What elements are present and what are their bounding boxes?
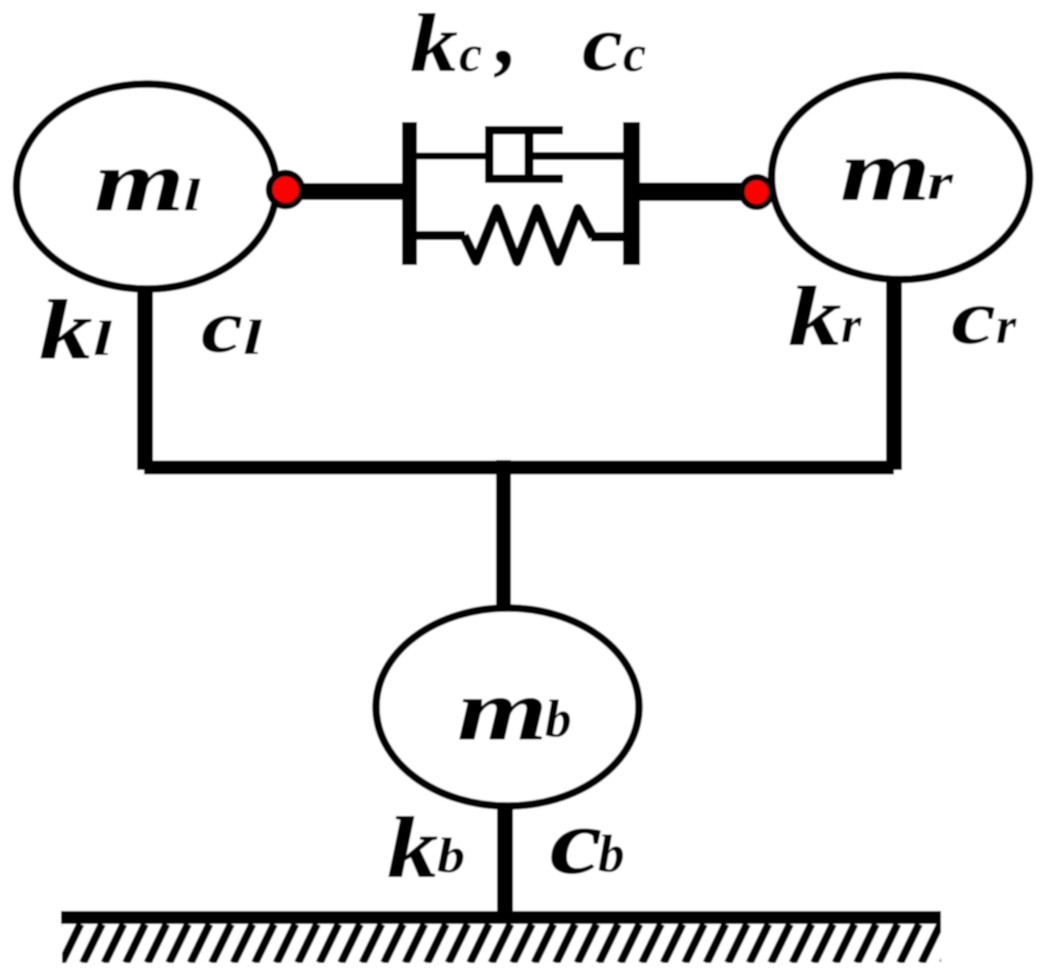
svg-text:c: c bbox=[550, 790, 603, 894]
svg-text:c: c bbox=[459, 26, 482, 83]
svg-text:c: c bbox=[582, 1, 623, 88]
svg-text:m: m bbox=[457, 663, 548, 760]
svg-text:c: c bbox=[951, 273, 996, 360]
svg-text:r: r bbox=[996, 298, 1017, 355]
svg-text:,: , bbox=[494, 0, 519, 84]
svg-text:m: m bbox=[94, 134, 185, 231]
svg-text:b: b bbox=[437, 827, 465, 883]
svg-text:m: m bbox=[840, 123, 931, 220]
svg-text:r: r bbox=[927, 154, 954, 211]
svg-text:l: l bbox=[184, 169, 201, 220]
svg-text:l: l bbox=[93, 310, 112, 366]
svg-text:k: k bbox=[387, 800, 438, 897]
svg-text:k: k bbox=[39, 282, 93, 378]
svg-text:b: b bbox=[545, 691, 572, 749]
svg-text:c: c bbox=[623, 26, 646, 83]
svg-text:c: c bbox=[201, 285, 243, 369]
svg-text:k: k bbox=[788, 268, 842, 364]
svg-text:k: k bbox=[410, 0, 458, 90]
svg-text:l: l bbox=[243, 309, 262, 365]
svg-text:b: b bbox=[598, 826, 625, 884]
svg-text:r: r bbox=[841, 297, 862, 354]
